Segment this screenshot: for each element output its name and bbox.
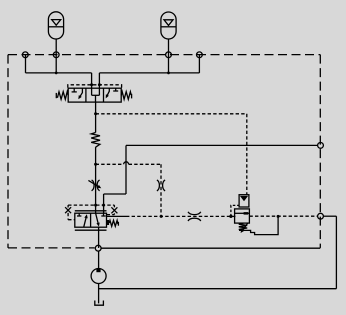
junction at relief valve pilot tap [229, 215, 232, 218]
wire right branch drop to lower valve [103, 194, 105, 213]
valve V1 centre position symbols [92, 88, 100, 102]
junction pilot-A [90, 83, 93, 86]
valve V1 right position symbols [106, 88, 119, 98]
junction pilot2-pilot3 [160, 215, 163, 218]
solenoid block of valve V2 [107, 220, 110, 225]
valve V2 right position symbols [96, 213, 106, 226]
relief valve RV1 adjusting arrow [241, 223, 248, 233]
accumulator A1 shell [48, 12, 63, 39]
pilot dashed line of lower valve top run [68, 204, 114, 206]
pilot line 3 continued to port X6 [249, 215, 317, 217]
pilot line 1 vertical to relief valve [246, 114, 248, 195]
pilot line 2 horizontal [96, 163, 124, 165]
pilot line 2 vertical [160, 164, 162, 215]
wire top manifold right [99, 72, 199, 74]
wire V2 bottom port down [98, 227, 100, 248]
wire valve port B vertical [98, 73, 100, 88]
pilot dashed box of valve V1 [68, 85, 122, 93]
wire from port X5 long horizontal [126, 144, 318, 146]
relief valve RV1 pilot loop dashed [231, 205, 239, 216]
enclosure dashed border right [319, 55, 321, 248]
orifice R3 on pilot line 3 [188, 212, 201, 221]
pilot drop right with plug X [107, 205, 118, 215]
wire right side down [335, 216, 337, 289]
wire pump to tank [98, 284, 100, 304]
wire pump suction top [98, 251, 100, 269]
pilot line 2 horizontal continued [129, 163, 161, 165]
accumulator A2 shell [161, 12, 176, 39]
junction main-pilot2 [94, 163, 97, 166]
wire main line below V1 [95, 102, 97, 132]
junction main-pilot1 [94, 112, 97, 115]
wire right branch vertical [125, 145, 127, 194]
orifice R2 on pilot line 2 [157, 180, 165, 191]
wire right branch horizontal [104, 193, 126, 195]
junction pilot-main [94, 204, 97, 207]
enclosure dashed border top [8, 54, 320, 56]
port circle X6 on right boundary [318, 213, 324, 219]
lower valve V2 bottom plate line [75, 229, 107, 231]
wire from port X4 down [198, 55, 200, 73]
pilot line 3 to relief valve [126, 215, 230, 217]
relief valve RV1 pilot stage box [239, 195, 249, 207]
wire bottom return long [99, 288, 337, 290]
tank T1 [95, 301, 104, 306]
junction A1-manifold [55, 72, 58, 75]
pump P1 [91, 269, 106, 284]
port circle X5 on right boundary [318, 143, 324, 149]
port circle X4 on top boundary [197, 52, 203, 58]
lower valve V2 top plate line [75, 210, 107, 212]
port circle X3 accumulator 2 tap [166, 52, 172, 58]
port circle X7 on bottom boundary [95, 245, 101, 251]
pilot line 1 horizontal to relief valve [96, 113, 247, 115]
enclosure dashed border bottom [8, 247, 95, 249]
pilot line 3 into relief valve [232, 215, 235, 217]
spring S1 on main line [91, 133, 100, 148]
wire V2 output solid [107, 215, 127, 217]
port circle X1 on top boundary [22, 52, 28, 58]
lower valve V2 body [75, 213, 107, 227]
pilot line 2 hop over solid wire [124, 162, 129, 165]
junction pilot-B [98, 83, 101, 86]
port circle X2 accumulator 1 tap [53, 52, 59, 58]
pilot drop left with plug X [65, 205, 75, 220]
spring V1 left [56, 92, 68, 100]
wire accumulator A2 drop [168, 39, 170, 73]
junction outlet-pilot [277, 215, 280, 218]
wire main line to lower valve [95, 147, 97, 213]
enclosure dashed border left [7, 55, 9, 248]
wire top manifold left [26, 72, 92, 74]
junction pilot-branch [102, 204, 105, 207]
wire accumulator A1 drop [55, 39, 57, 73]
wire valve port A vertical [91, 73, 93, 88]
wire from port X6 right [323, 215, 336, 217]
wire bottom boundary solid [101, 247, 320, 249]
spring V1 right [121, 92, 131, 100]
directional valve V1 body [68, 88, 121, 102]
spring V2 right [109, 220, 118, 226]
valve V2 left position symbols [77, 213, 88, 227]
wire relief valve outlet staircase [239, 216, 278, 234]
junction A2-manifold [167, 72, 170, 75]
relief valve RV1 main box [235, 209, 250, 223]
variable throttle R1 on main line [88, 180, 101, 191]
relief valve RV1 spring [239, 223, 247, 230]
wire from port X1 down [25, 55, 27, 73]
valve V1 left position symbols [72, 88, 83, 99]
